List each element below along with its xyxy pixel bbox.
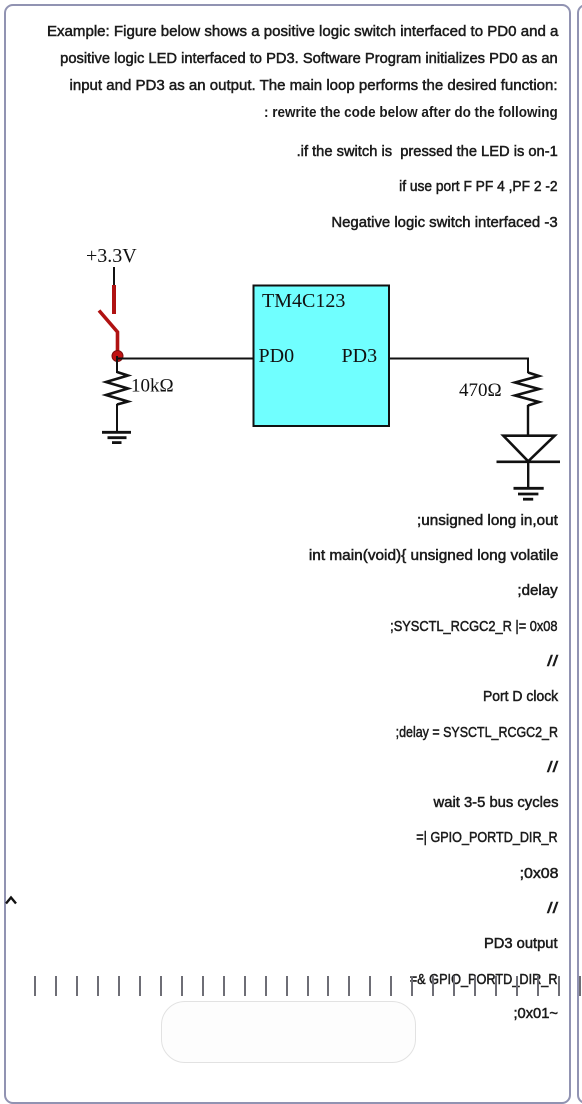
paragraph line 1 [47, 25, 558, 39]
paragraph line 2 [60, 52, 558, 66]
LED D1 cathode bar [497, 460, 561, 463]
scrubber tick 4 [97, 976, 99, 996]
code line 14 [410, 973, 558, 988]
wire PD3 to resistor R2 [389, 359, 528, 374]
wire LED to ground [527, 462, 529, 489]
scrubber tick 27 [579, 976, 581, 996]
code line 9 [433, 796, 558, 811]
scrubber tick 16 [348, 976, 350, 996]
code line 3 [518, 584, 558, 599]
scrubber tick 3 [76, 976, 78, 996]
paragraph line 3 [70, 79, 558, 93]
circuit schematic SVG [0, 0, 582, 520]
scrubber tick 1 [34, 976, 36, 996]
scrubber tick 12 [265, 976, 267, 996]
scrubber tick 8 [181, 976, 183, 996]
code line 8 [547, 761, 558, 776]
code line 5 [547, 655, 558, 670]
svg-text:PD3: PD3 [342, 345, 378, 367]
scrubber tick 11 [244, 976, 246, 996]
code line 12 [547, 902, 558, 917]
switch S1 fixed contact (red) [112, 285, 116, 314]
ground GND1 [102, 432, 131, 442]
svg-text:TM4C123: TM4C123 [262, 290, 345, 312]
code line 10 [417, 831, 558, 846]
wire R2 to LED [527, 405, 529, 436]
svg-text:10kΩ: 10kΩ [131, 376, 174, 397]
scrubber tick 13 [286, 976, 288, 996]
scrubber tick 6 [139, 976, 141, 996]
scrubber tick 22 [474, 976, 476, 996]
ground GND2 [514, 488, 544, 499]
code line 1 [417, 514, 558, 529]
svg-text:+3.3V: +3.3V [86, 245, 137, 267]
switch S1 arm (red, open) [99, 311, 118, 355]
svg-text:PD0: PD0 [259, 345, 295, 367]
scrubber tick 25 [537, 976, 539, 996]
LED D1 triangle [503, 436, 554, 462]
code line 15 [514, 1007, 558, 1022]
scrubber tick 9 [202, 976, 204, 996]
next page card (partially visible) [577, 4, 582, 1104]
code line 11 [519, 867, 558, 882]
scrubber tick 17 [369, 976, 371, 996]
resistor R2 470 zigzag [515, 373, 539, 406]
scrubber tick 21 [453, 976, 455, 996]
junction node (red dot) [112, 351, 123, 362]
scrubber tick 20 [432, 976, 434, 996]
scrubber tick 18 [390, 976, 392, 996]
microcontroller U1 TM4C123 box [254, 286, 390, 427]
scrubber tick 2 [55, 976, 57, 996]
line 7 [332, 216, 558, 230]
code line 7 [396, 726, 558, 741]
svg-text:470Ω: 470Ω [459, 380, 502, 401]
scrubber tick 26 [558, 976, 560, 996]
scrubber tick 5 [118, 976, 120, 996]
scrubber tick 14 [307, 976, 309, 996]
wire from +3.3V to switch [113, 267, 115, 286]
code line 13 [484, 937, 558, 952]
scrubber tick 24 [516, 976, 518, 996]
scrubber tick 15 [327, 976, 329, 996]
code line 2 [309, 549, 558, 564]
chevron caret [3, 893, 23, 909]
scrubber tick 10 [223, 976, 225, 996]
wire node to PD0 [118, 358, 254, 360]
bold line 4 [264, 106, 558, 120]
resistor R1 10k zigzag [106, 372, 128, 405]
code line 4 [391, 620, 558, 635]
code line 6 [483, 690, 558, 705]
wire node to resistor R1 [116, 356, 118, 373]
line 6 [400, 180, 558, 194]
wire R1 to ground [116, 404, 118, 432]
scrubber tick 23 [495, 976, 497, 996]
line 5 [297, 145, 558, 159]
bottom pill overlay [161, 1001, 416, 1063]
scrubber tick 7 [160, 976, 162, 996]
scrubber tick 19 [411, 976, 413, 996]
